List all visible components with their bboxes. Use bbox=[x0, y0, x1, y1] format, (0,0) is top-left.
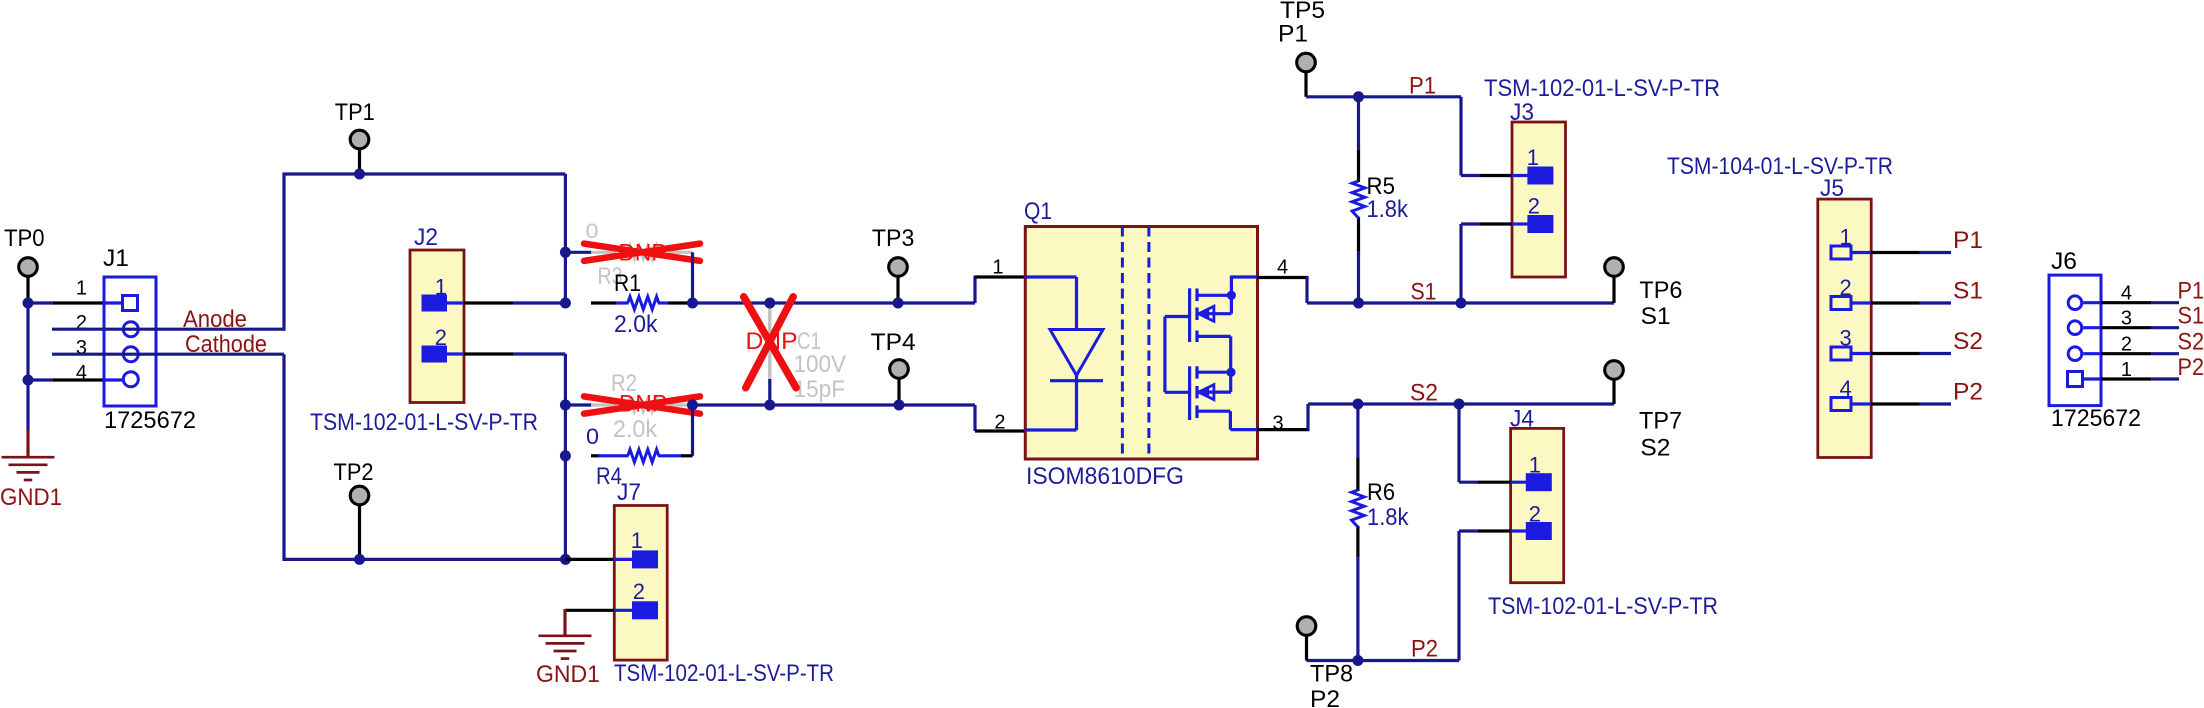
svg-text:TP2: TP2 bbox=[334, 459, 374, 486]
svg-text:P1: P1 bbox=[1953, 227, 1983, 254]
connector J5 pin4 square bbox=[1831, 398, 1851, 411]
connector J3 box bbox=[1512, 122, 1566, 277]
resistor R1 value bbox=[614, 311, 658, 338]
test point TP6 label bbox=[1639, 277, 1682, 304]
pin number J6-4 bbox=[2121, 283, 2132, 305]
wire cathode vertical drop bbox=[282, 354, 285, 561]
connector J7 box bbox=[614, 506, 667, 661]
connector J7 value bbox=[614, 660, 834, 687]
connector J6 box bbox=[2049, 275, 2101, 406]
net label S1 at J6 bbox=[2178, 303, 2204, 330]
connector J1 pin4 stub bbox=[104, 378, 123, 381]
svg-text:4: 4 bbox=[2121, 283, 2132, 305]
svg-text:1: 1 bbox=[992, 257, 1003, 279]
connector J5 pin3 square bbox=[1831, 347, 1851, 360]
svg-text:S1: S1 bbox=[1641, 303, 1671, 330]
pin number J5-4 bbox=[1839, 376, 1851, 401]
node junction R6 top bbox=[1352, 399, 1363, 410]
svg-text:2: 2 bbox=[435, 325, 447, 350]
test point TP8 bbox=[1297, 617, 1316, 636]
net label P2 at J5 bbox=[1953, 379, 1983, 406]
node junction R5 top bbox=[1353, 91, 1364, 102]
pin number Q1-1 bbox=[992, 257, 1003, 279]
wire J2 pin2 net bbox=[513, 352, 565, 355]
resistor R2 DNP text bbox=[619, 391, 667, 418]
wire Q1 pin3 step bbox=[1306, 404, 1309, 431]
connector J5 pin1 square bbox=[1831, 246, 1851, 259]
transistor Q1b gate plate bbox=[1188, 366, 1191, 420]
connector J1 pin2 circle bbox=[123, 322, 138, 337]
svg-text:1.8k: 1.8k bbox=[1367, 196, 1409, 223]
op-amp U1 optocoupler Q1 label bbox=[1024, 198, 1052, 225]
resistor R1 leads bbox=[616, 301, 669, 304]
transistor Q1a gate plate bbox=[1188, 288, 1191, 342]
connector J6 pin3 circle bbox=[2068, 321, 2082, 335]
svg-text:2: 2 bbox=[1529, 502, 1541, 527]
resistor R6 body bbox=[1352, 490, 1365, 527]
test point TP7 label bbox=[1639, 408, 1682, 435]
ground GND1 left stem bbox=[26, 430, 29, 457]
net label P2 at J6 bbox=[2178, 354, 2204, 381]
svg-text:P2: P2 bbox=[1310, 686, 1340, 708]
resistor R3 ghost leads bbox=[591, 251, 693, 254]
wire Q1a source to Q1b bbox=[1229, 336, 1232, 392]
pin number J6-3 bbox=[2121, 308, 2132, 330]
svg-text:1725672: 1725672 bbox=[104, 407, 196, 434]
wire R4 right black bbox=[681, 454, 693, 457]
diode D1 anode lead bbox=[1025, 277, 1076, 330]
transistor Q1b channel bbox=[1195, 366, 1198, 418]
connector J6 pin1 stub bbox=[2084, 377, 2102, 380]
connector J2 pin2 stub bbox=[446, 352, 464, 355]
wire TP0 stem bbox=[26, 277, 29, 304]
wire Cathode row bbox=[52, 353, 284, 356]
capacitor C1 net stub bbox=[768, 379, 771, 405]
connector J6 pin4 circle bbox=[2068, 296, 2082, 310]
svg-text:2: 2 bbox=[633, 579, 645, 604]
net label P1 at J6 bbox=[2178, 278, 2204, 305]
net label Cathode bbox=[185, 331, 267, 358]
node junction J1 pin1 bbox=[23, 298, 34, 309]
svg-text:P2: P2 bbox=[1953, 379, 1983, 406]
wire J3 pin2 net bbox=[1461, 224, 1481, 303]
svg-text:TP0: TP0 bbox=[4, 225, 45, 252]
capacitor C1 DNP text bbox=[746, 328, 798, 355]
resistor R6 black leads bbox=[1356, 458, 1359, 556]
pin number J4-2 bbox=[1529, 502, 1541, 527]
transistor Q1a gate bus bbox=[1165, 317, 1190, 393]
pin number J1-1 bbox=[76, 278, 87, 300]
wire J5 pin2 black bbox=[1871, 301, 1920, 304]
connector J3 pin1 square bbox=[1527, 167, 1553, 185]
resistor R2 ghost leads bbox=[591, 403, 693, 406]
transistor Q1b source stub bbox=[1197, 410, 1230, 413]
connector J4 pin2 square bbox=[1526, 522, 1552, 540]
connector J2 box bbox=[410, 250, 464, 403]
net label Anode bbox=[183, 306, 247, 333]
svg-text:TP8: TP8 bbox=[1310, 661, 1353, 688]
test point TP2 label bbox=[334, 459, 374, 486]
resistor R2 net stub bbox=[565, 403, 592, 406]
resistor R2 DNP cross bbox=[584, 396, 700, 413]
connector J5 label bbox=[1820, 175, 1844, 202]
connector J1 pin1 stub bbox=[104, 301, 122, 304]
svg-text:3: 3 bbox=[1839, 326, 1851, 351]
svg-text:GND1: GND1 bbox=[536, 661, 600, 688]
wire top bus bbox=[283, 172, 566, 175]
pin number J7-1 bbox=[631, 528, 643, 553]
wire J7 pin1 black bbox=[566, 558, 615, 561]
svg-text:0: 0 bbox=[586, 424, 599, 449]
connector J6 value 1725672 bbox=[2051, 405, 2141, 432]
pin number Q1-4 bbox=[1277, 257, 1288, 279]
svg-text:J2: J2 bbox=[414, 224, 438, 251]
connector J1 pin1 square bbox=[123, 296, 138, 311]
resistor R5 black leads bbox=[1357, 150, 1360, 251]
svg-text:TSM-102-01-L-SV-P-TR: TSM-102-01-L-SV-P-TR bbox=[1488, 593, 1718, 620]
connector J7 pin2 square bbox=[632, 601, 658, 619]
connector J3 label bbox=[1510, 99, 1534, 126]
capacitor C1 DNP cross bbox=[744, 297, 796, 388]
connector J2 label bbox=[414, 224, 438, 251]
pin number J2-2 bbox=[435, 325, 447, 350]
svg-text:TSM-104-01-L-SV-P-TR: TSM-104-01-L-SV-P-TR bbox=[1667, 153, 1893, 180]
svg-text:TP4: TP4 bbox=[871, 329, 916, 356]
resistor R5 value bbox=[1367, 196, 1409, 223]
test point TP7 net label bbox=[1640, 435, 1670, 462]
wire cathode-side bus vertical bbox=[564, 354, 567, 559]
svg-text:2: 2 bbox=[1839, 275, 1851, 300]
node junction C1 top bbox=[764, 298, 775, 309]
wire S1 row bbox=[1307, 301, 1614, 304]
connector J6 pin2 stub bbox=[2083, 352, 2101, 355]
node junction R5 bottom bbox=[1353, 298, 1364, 309]
resistor R3 ghost body bbox=[628, 246, 659, 259]
wire J5 pin3 black bbox=[1871, 352, 1920, 355]
svg-text:15pF: 15pF bbox=[794, 376, 846, 403]
pin number J4-1 bbox=[1529, 453, 1541, 478]
wire R3 to R1 vertical bbox=[691, 252, 694, 303]
svg-text:S1: S1 bbox=[1953, 278, 1983, 305]
capacitor C1 name bbox=[797, 328, 821, 355]
wire J6 pin3 net bbox=[2151, 326, 2179, 329]
connector J6 pin2 circle bbox=[2068, 347, 2082, 361]
test point TP6 bbox=[1605, 258, 1624, 277]
resistor R2 value ghost bbox=[613, 416, 658, 443]
connector J4 pin1 stub bbox=[1511, 481, 1527, 484]
wire J5 pin2 net bbox=[1920, 301, 1952, 304]
node junction J7 pin1 bbox=[560, 554, 571, 565]
pin number J5-3 bbox=[1839, 326, 1851, 351]
transistor Q1a drain riser bbox=[1230, 276, 1233, 314]
svg-text:S2: S2 bbox=[1640, 435, 1670, 462]
node junction J1 pin4 bbox=[23, 375, 34, 386]
wire R2 row to Q1 bbox=[693, 403, 976, 406]
capacitor C1 rating 100V bbox=[794, 351, 847, 378]
connector J3 pin1 stub bbox=[1512, 174, 1528, 177]
ground GND1 J7 label bbox=[536, 661, 600, 688]
svg-text:1: 1 bbox=[1529, 453, 1541, 478]
svg-text:R6: R6 bbox=[1367, 479, 1395, 506]
node junction R2 left bbox=[560, 400, 571, 411]
transistor Q1a drain stub bbox=[1197, 294, 1231, 297]
svg-text:1: 1 bbox=[435, 275, 447, 300]
capacitor C1 value 15pF bbox=[794, 376, 846, 403]
wire J5 pin4 black bbox=[1871, 402, 1920, 405]
test point TP4 bbox=[890, 360, 909, 379]
wire Q1 pin4 inside bbox=[1231, 275, 1258, 278]
svg-text:100V: 100V bbox=[794, 351, 847, 378]
node junction R1 right bbox=[687, 298, 698, 309]
wire bottom bus bbox=[283, 558, 566, 561]
diode D1 cathode lead bbox=[1025, 375, 1076, 430]
pin number Q1-3 bbox=[1273, 413, 1284, 435]
node junction R1 left bbox=[560, 298, 571, 309]
svg-text:S1: S1 bbox=[2178, 303, 2204, 330]
svg-text:Anode: Anode bbox=[183, 306, 247, 333]
svg-text:TP1: TP1 bbox=[335, 99, 375, 126]
diode D1 cathode bar bbox=[1050, 379, 1103, 382]
svg-text:4: 4 bbox=[76, 362, 87, 384]
wire J1 pin4 net bbox=[28, 378, 54, 381]
resistor R5 name bbox=[1367, 173, 1396, 200]
pin number J1-3 bbox=[76, 337, 87, 359]
wire Anode row bbox=[52, 328, 284, 331]
connector J4 pin2 stub bbox=[1511, 529, 1527, 532]
connector J4 pin1 square bbox=[1526, 473, 1552, 491]
test point TP6 net label bbox=[1641, 303, 1671, 330]
wire R1 row to Q1 bbox=[693, 301, 976, 304]
pin number J3-2 bbox=[1528, 194, 1540, 219]
node junction TP2 bbox=[354, 554, 365, 565]
wire R1 left black bbox=[591, 301, 617, 304]
wire J1 pin1 black bbox=[53, 301, 104, 304]
svg-text:P1: P1 bbox=[1278, 21, 1308, 48]
test point TP5 label bbox=[1280, 0, 1325, 24]
transistor Q1a body stub bbox=[1208, 312, 1231, 315]
connector J2 pin1 square bbox=[422, 295, 448, 312]
resistor R4 body bbox=[628, 449, 659, 462]
wire Q1 pin3 inside bbox=[1230, 428, 1258, 431]
svg-text:1725672: 1725672 bbox=[2051, 405, 2141, 432]
ground GND1 J7 bbox=[539, 636, 592, 659]
wire J2 pin1 net bbox=[513, 301, 565, 304]
wire J6 pin2 black bbox=[2101, 352, 2151, 355]
wire anode-side bus vertical bbox=[564, 174, 567, 303]
test point TP5 net label bbox=[1278, 21, 1308, 48]
svg-text:J6: J6 bbox=[2051, 248, 2077, 275]
wire TP4 stem bbox=[897, 379, 900, 406]
svg-text:S1: S1 bbox=[1411, 279, 1437, 306]
wire J4 pin1 black bbox=[1478, 481, 1511, 484]
wire J6 pin1 black bbox=[2101, 377, 2151, 380]
wire Q1 pin4 step bbox=[1305, 276, 1308, 303]
svg-text:1: 1 bbox=[631, 528, 643, 553]
wire TP8 stem bbox=[1305, 636, 1308, 661]
svg-text:3: 3 bbox=[2121, 308, 2132, 330]
wire J1 pin4 black bbox=[53, 378, 104, 381]
svg-text:P1: P1 bbox=[1409, 73, 1436, 100]
test point TP7 bbox=[1605, 361, 1624, 380]
svg-text:S2: S2 bbox=[1410, 380, 1438, 407]
resistor R3 net stub bbox=[565, 251, 592, 254]
net label P1 bbox=[1409, 73, 1436, 100]
diode D1 triangle bbox=[1050, 330, 1103, 376]
resistor R3 DNP text bbox=[619, 240, 667, 267]
svg-text:4: 4 bbox=[1277, 257, 1288, 279]
pin number J7-2 bbox=[633, 579, 645, 604]
node junction R3 left bbox=[560, 247, 571, 258]
connector J2 pin1 stub bbox=[446, 301, 464, 304]
svg-text:1: 1 bbox=[1839, 225, 1851, 250]
net label S2 at J6 bbox=[2178, 329, 2204, 356]
svg-text:2: 2 bbox=[1528, 194, 1540, 219]
connector J5 box bbox=[1818, 199, 1871, 457]
connector J1 value 1725672 bbox=[104, 407, 196, 434]
svg-text:Cathode: Cathode bbox=[185, 331, 267, 358]
resistor R3 DNP cross bbox=[584, 244, 700, 261]
resistor R6 value bbox=[1367, 504, 1409, 531]
wire Q1 pin1 step bbox=[973, 276, 976, 304]
node junction C1 bottom bbox=[764, 400, 775, 411]
resistor R5 body bbox=[1352, 181, 1365, 218]
wire TP5 stem bbox=[1304, 72, 1307, 97]
svg-text:P1: P1 bbox=[2178, 278, 2204, 305]
wire J5 pin1 net bbox=[1920, 251, 1952, 254]
node junction R6 bottom bbox=[1352, 655, 1363, 666]
svg-text:Q1: Q1 bbox=[1024, 198, 1052, 225]
resistor R6 net leads bbox=[1356, 404, 1359, 661]
wire R2 to R4 vertical bbox=[691, 405, 694, 456]
svg-text:P2: P2 bbox=[2178, 354, 2204, 381]
svg-text:R1: R1 bbox=[614, 270, 641, 297]
wire Q1 pin1 black bbox=[975, 275, 1027, 278]
connector J2 pin2 square bbox=[422, 346, 448, 363]
connector J4 label bbox=[1510, 406, 1534, 433]
pin number J6-2 bbox=[2121, 334, 2132, 356]
node junction TP3 bbox=[893, 298, 904, 309]
wire J6 pin4 net bbox=[2151, 301, 2179, 304]
node junction TP4 bbox=[894, 400, 905, 411]
wire J6 pin3 black bbox=[2101, 326, 2151, 329]
svg-text:TSM-102-01-L-SV-P-TR: TSM-102-01-L-SV-P-TR bbox=[310, 409, 538, 436]
net label P2 bbox=[1411, 636, 1438, 663]
svg-text:J7: J7 bbox=[617, 479, 641, 506]
connector J6 label bbox=[2051, 248, 2077, 275]
svg-text:J1: J1 bbox=[103, 245, 129, 272]
test point TP2 bbox=[350, 486, 369, 505]
resistor R4 value 0 bbox=[586, 424, 599, 449]
svg-text:4: 4 bbox=[1839, 376, 1851, 401]
node Q1a drain junction bbox=[1227, 291, 1236, 300]
pin number J2-1 bbox=[435, 275, 447, 300]
wire Q1 pin4 black bbox=[1257, 276, 1309, 279]
svg-text:2: 2 bbox=[2121, 334, 2132, 356]
resistor R4 leads bbox=[598, 454, 682, 457]
net label P1 at J5 bbox=[1953, 227, 1983, 254]
wire TP6 stem bbox=[1612, 276, 1615, 303]
svg-text:ISOM8610DFG: ISOM8610DFG bbox=[1026, 463, 1184, 490]
net label S2 at J5 bbox=[1953, 328, 1983, 355]
wire Q1 pin2 black bbox=[975, 429, 1027, 432]
wire J2 pin2 black bbox=[464, 352, 513, 355]
test point TP0 label bbox=[4, 225, 45, 252]
svg-text:TSM-102-01-L-SV-P-TR: TSM-102-01-L-SV-P-TR bbox=[1484, 75, 1720, 102]
node junction J4 drop on S2 bbox=[1454, 399, 1465, 410]
wire J6 pin1 net bbox=[2151, 377, 2179, 380]
connector J2 value bbox=[310, 409, 538, 436]
connector J6 pin4 stub bbox=[2083, 301, 2101, 304]
net label S2 bbox=[1410, 380, 1438, 407]
transistor Q1a body diode arrow bbox=[1199, 306, 1214, 321]
node Q1b drain junction bbox=[1226, 368, 1235, 377]
wire J1 pin1 net bbox=[28, 301, 54, 304]
isolation barrier dashed lines bbox=[1122, 227, 1149, 460]
connector J4 value bbox=[1488, 593, 1718, 620]
connector J6 pin1 square bbox=[2068, 372, 2083, 387]
wire TP7 stem bbox=[1612, 379, 1615, 404]
transistor Q1a source stub bbox=[1197, 335, 1231, 338]
pin number J1-4 bbox=[76, 362, 87, 384]
wire J4 pin1 net bbox=[1459, 404, 1479, 482]
connector J3 pin2 square bbox=[1527, 215, 1553, 233]
ground GND1 J7 stem bbox=[563, 609, 566, 636]
connector J1 box bbox=[104, 277, 156, 406]
optocoupler Q1 value bbox=[1026, 463, 1184, 490]
resistor R2 ghost body bbox=[628, 399, 659, 412]
wire J5 pin3 net bbox=[1920, 352, 1952, 355]
connector J4 box bbox=[1511, 428, 1564, 582]
svg-text:2.0k: 2.0k bbox=[614, 311, 658, 338]
svg-text:1: 1 bbox=[2121, 359, 2132, 381]
wire J6 pin4 black bbox=[2101, 301, 2151, 304]
connector J5 pin2 stub bbox=[1851, 301, 1871, 304]
wire J5 pin4 net bbox=[1920, 402, 1952, 405]
wire P2 row bbox=[1307, 659, 1460, 662]
wire J4 pin2 black bbox=[1478, 529, 1511, 532]
test point TP3 label bbox=[872, 225, 915, 252]
svg-text:S2: S2 bbox=[1953, 328, 1983, 355]
wire P1 row bbox=[1306, 95, 1461, 98]
svg-text:S2: S2 bbox=[2178, 329, 2204, 356]
transistor Q1b drain stub bbox=[1197, 371, 1231, 374]
wire J7 pin2 black bbox=[565, 609, 614, 612]
connector J5 pin1 stub bbox=[1851, 251, 1871, 254]
svg-text:0: 0 bbox=[586, 220, 599, 243]
wire Q1 pin3 black bbox=[1257, 428, 1310, 431]
connector J5 pin4 stub bbox=[1851, 402, 1871, 405]
ground GND1 left label bbox=[0, 484, 62, 511]
wire anode vertical riser bbox=[282, 173, 285, 331]
test point TP1 label bbox=[335, 99, 375, 126]
svg-text:2.0k: 2.0k bbox=[613, 416, 658, 443]
wire J3 pin2 black bbox=[1480, 222, 1512, 225]
test point TP8 label bbox=[1310, 661, 1353, 688]
connector J5 pin2 square bbox=[1831, 297, 1851, 310]
test point TP8 net label bbox=[1310, 686, 1340, 708]
connector J1 pin4 circle bbox=[123, 372, 138, 387]
svg-text:P2: P2 bbox=[1411, 636, 1438, 663]
net label S1 bbox=[1411, 279, 1437, 306]
pin number J3-1 bbox=[1527, 145, 1539, 170]
pin number J1-2 bbox=[76, 312, 87, 334]
optocoupler Q1 box bbox=[1025, 227, 1257, 460]
transistor Q1a channel bbox=[1195, 289, 1198, 343]
wire TP1 stem bbox=[358, 149, 361, 174]
svg-text:GND1: GND1 bbox=[0, 484, 62, 511]
pin number Q1-2 bbox=[994, 412, 1005, 434]
wire R4 left black bbox=[591, 454, 600, 457]
